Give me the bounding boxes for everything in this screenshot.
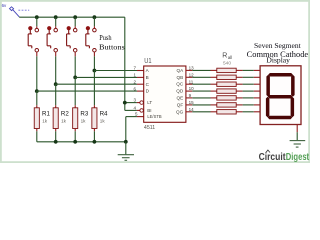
- resistor pack element 4: [217, 89, 236, 93]
- resistor pack element 3: [217, 82, 236, 86]
- segment e: [266, 97, 270, 118]
- resistor pack element 2: [217, 75, 236, 79]
- LT bubble: [140, 101, 144, 105]
- svg-text:11: 11: [189, 79, 194, 84]
- wire to LT pin: [125, 102, 137, 104]
- title Seven Segment Common Cathode Display: [247, 41, 309, 65]
- svg-text:540: 540: [223, 60, 231, 66]
- svg-text:Push: Push: [99, 34, 112, 42]
- push button 2: [47, 15, 58, 56]
- resistor pack element 7: [217, 110, 236, 114]
- wire to display pin 2: [236, 76, 242, 78]
- wire to display pin 5: [236, 97, 242, 99]
- wire to display pin 7: [236, 111, 242, 113]
- wire button 3 node: [74, 56, 76, 77]
- svg-text:BI: BI: [147, 108, 151, 113]
- svg-text:Buttons: Buttons: [99, 43, 125, 51]
- wire QA output: [186, 69, 192, 71]
- display common cathode pin: [296, 125, 298, 133]
- wire to display pin 4: [236, 90, 242, 92]
- svg-text:12: 12: [189, 72, 195, 77]
- svg-text:1k: 1k: [100, 119, 106, 124]
- svg-text:1k: 1k: [61, 119, 67, 124]
- svg-text:R: R: [222, 53, 227, 60]
- ground right: [290, 141, 306, 148]
- svg-text:B: B: [146, 75, 149, 80]
- wire QC output: [186, 83, 192, 85]
- wire ground rail: [37, 141, 126, 143]
- op IC U1 4511: [144, 58, 186, 131]
- svg-text:QC: QC: [176, 82, 184, 87]
- svg-text:13: 13: [189, 66, 195, 71]
- segment f: [266, 75, 270, 97]
- wire rail down to LT/BI: [124, 17, 126, 102]
- resistor R1 1k: [34, 105, 50, 142]
- wire to BI pin: [125, 109, 137, 111]
- push button 1: [28, 15, 38, 56]
- svg-text:LT: LT: [147, 100, 152, 105]
- svg-text:1k: 1k: [81, 119, 87, 124]
- wire QD output: [186, 90, 192, 92]
- wire QB output: [186, 76, 192, 78]
- wire to display pin 1: [236, 69, 242, 71]
- seven segment display: [260, 66, 301, 125]
- label Push Buttons: [99, 34, 125, 51]
- svg-text:U1: U1: [144, 58, 151, 65]
- resistor pack element 5: [217, 96, 236, 100]
- svg-text:R4: R4: [100, 111, 108, 118]
- wire button 1 node: [36, 56, 38, 91]
- svg-text:4511: 4511: [144, 125, 155, 131]
- svg-text:QG: QG: [176, 109, 184, 114]
- resistor pack element 6: [217, 103, 236, 107]
- resistor R2 1k: [53, 105, 69, 142]
- wire to display pin 6: [236, 104, 242, 106]
- wire QG output: [186, 111, 192, 113]
- svg-text:6v: 6v: [2, 3, 7, 8]
- wire +6v top rail: [19, 16, 125, 18]
- segment d: [268, 116, 293, 120]
- segment g: [268, 95, 293, 99]
- resistor pack element 1: [217, 68, 236, 72]
- wire QF output: [186, 104, 192, 106]
- push button 3: [67, 15, 78, 56]
- svg-text:QF: QF: [177, 102, 184, 107]
- wire button 2 node: [55, 56, 57, 84]
- svg-text:all: all: [228, 55, 233, 60]
- svg-text:15: 15: [189, 100, 195, 105]
- wire button 4 node: [93, 56, 95, 70]
- logo CircuitDigest: [259, 150, 310, 163]
- svg-text:LE/STB: LE/STB: [147, 114, 161, 119]
- segment a: [268, 73, 293, 77]
- segment b: [291, 75, 295, 97]
- svg-text:Digest: Digest: [286, 152, 310, 163]
- wire QE output: [186, 97, 192, 99]
- resistor R4 1k: [92, 105, 108, 142]
- resistor R3 1k: [73, 105, 89, 142]
- segment c: [291, 97, 295, 118]
- junction LT/BI net: [123, 101, 127, 105]
- svg-text:R3: R3: [80, 111, 88, 118]
- svg-text:R1: R1: [42, 111, 50, 118]
- BI bubble: [140, 109, 144, 113]
- svg-text:QB: QB: [177, 75, 184, 80]
- label Rall 540: [222, 53, 232, 67]
- wire LE/STB to ground: [137, 116, 144, 118]
- svg-text:QE: QE: [177, 95, 184, 100]
- svg-text:14: 14: [189, 107, 195, 112]
- ground center: [118, 142, 134, 161]
- svg-text:1k: 1k: [42, 119, 48, 124]
- svg-text:Circuit: Circuit: [259, 152, 287, 163]
- svg-text:10: 10: [189, 86, 195, 91]
- svg-text:R2: R2: [61, 111, 69, 118]
- svg-text:Display: Display: [266, 57, 290, 65]
- push button 4: [86, 15, 97, 56]
- wire to display pin 3: [236, 83, 242, 85]
- svg-text:QA: QA: [177, 68, 185, 73]
- svg-text:QD: QD: [176, 89, 184, 94]
